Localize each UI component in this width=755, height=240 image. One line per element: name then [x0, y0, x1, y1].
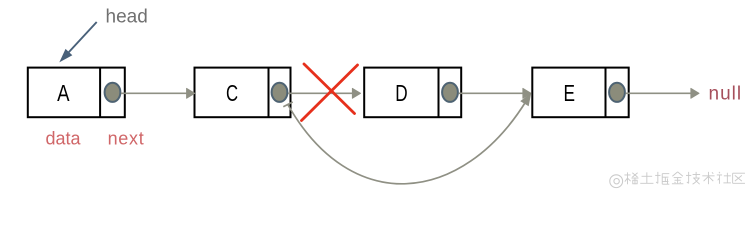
- svg-text:head: head: [106, 7, 148, 28]
- svg-text:C: C: [226, 80, 238, 106]
- svg-text:D: D: [395, 80, 407, 106]
- svg-text:A: A: [57, 80, 70, 106]
- svg-text:null: null: [709, 84, 743, 105]
- svg-text:data: data: [45, 129, 81, 149]
- svg-text:next: next: [108, 129, 145, 149]
- svg-text:E: E: [564, 80, 576, 106]
